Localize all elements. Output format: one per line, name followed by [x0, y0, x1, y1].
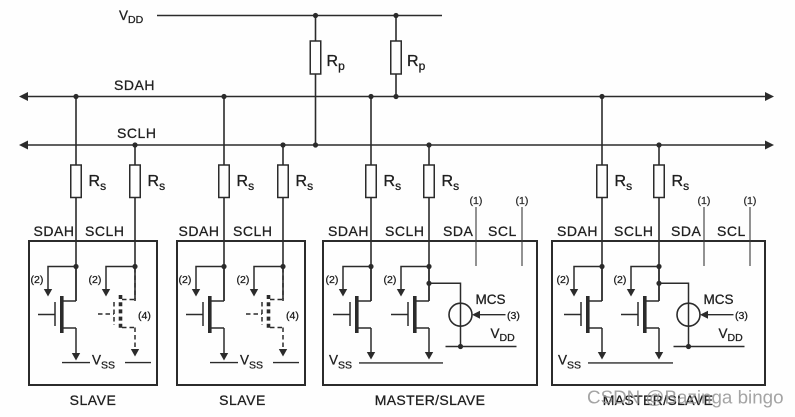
transistor NMOS — [38, 267, 76, 334]
svg-text:SCLH: SCLH — [233, 223, 273, 239]
svg-text:(1): (1) — [470, 195, 483, 207]
caption MASTER/SLAVE — [603, 392, 714, 408]
label Rs — [237, 173, 255, 193]
svg-text:(1): (1) — [744, 195, 757, 207]
label (2) — [179, 274, 192, 286]
supply bar VDD — [446, 346, 517, 348]
current source MCS — [449, 303, 472, 326]
arrow (3) control input — [700, 311, 734, 319]
label (2) — [237, 274, 250, 286]
device box MASTER/SLAVE — [552, 241, 765, 385]
wire to MCS and through to VDD bar — [429, 283, 463, 349]
port label SDA — [443, 223, 474, 239]
label MCS — [476, 292, 506, 307]
junction Rp2 on VDD — [393, 13, 398, 18]
net label VDD — [119, 8, 144, 26]
svg-text:(1): (1) — [516, 195, 529, 207]
junction SCLH / slave2 Rs — [280, 142, 285, 147]
ground rail VSS — [359, 362, 443, 364]
label Rs — [615, 173, 633, 193]
resistor Rs #7 — [597, 97, 608, 302]
svg-text:SLAVE: SLAVE — [70, 392, 117, 408]
transistor NMOS — [621, 267, 659, 334]
junction SDAH / Rp2 — [393, 94, 398, 99]
resistor Rs #5 — [366, 97, 377, 302]
wire gate feedback branch with arrow (2) — [570, 267, 602, 297]
label Rs — [89, 173, 107, 193]
svg-text:SDA: SDA — [671, 223, 702, 239]
label VSS — [329, 353, 352, 372]
svg-text:(2): (2) — [89, 274, 102, 286]
svg-text:(4): (4) — [286, 310, 299, 322]
svg-text:SCLH: SCLH — [614, 223, 654, 239]
junction SCLH / Rp1 — [313, 142, 318, 147]
junction SCLH / master1 Rs — [426, 142, 431, 147]
net label SDAH — [114, 77, 155, 93]
transistor optional dashed (4) — [98, 268, 135, 331]
svg-text:SCL: SCL — [717, 223, 746, 239]
svg-text:SDAH: SDAH — [179, 223, 220, 239]
svg-text:(2): (2) — [326, 274, 339, 286]
label VDD — [491, 326, 516, 344]
label (2) — [89, 274, 102, 286]
wire gate feedback branch with arrow (2) — [192, 267, 224, 297]
svg-text:(2): (2) — [31, 274, 44, 286]
label (1) — [516, 195, 529, 207]
junction SDAH / slave1 Rs — [73, 94, 78, 99]
svg-text:(2): (2) — [614, 274, 627, 286]
node junction at top of transistor — [221, 264, 226, 269]
port label SDAH — [179, 223, 220, 239]
label (2) — [326, 274, 339, 286]
resistor Rp (SCLH pull-up) — [310, 16, 321, 146]
svg-text:SCL: SCL — [488, 223, 517, 239]
label VSS slave2 — [240, 353, 263, 372]
label (3) — [735, 310, 748, 322]
node junction at top of optional transistor — [132, 264, 137, 269]
node junction MCS tap — [656, 281, 661, 286]
svg-text:(1): (1) — [698, 195, 711, 207]
label Rs — [296, 173, 314, 193]
label Rs — [672, 173, 690, 193]
port label SCLH — [85, 223, 125, 239]
wire to MCS and through to VDD bar — [659, 283, 691, 349]
wire source to VSS with arrow — [425, 328, 433, 360]
wire VDD rail — [157, 15, 442, 17]
junction Rp1 on VDD — [313, 13, 318, 18]
svg-text:(2): (2) — [179, 274, 192, 286]
wire SDAH bus — [19, 92, 774, 101]
label VSS slave1 — [92, 353, 115, 372]
svg-text:SCLH: SCLH — [85, 223, 125, 239]
resistor Rs #3 — [219, 97, 230, 302]
device box SLAVE — [177, 241, 305, 385]
svg-text:(4): (4) — [138, 310, 151, 322]
wire gate feedback branch with arrow (2) — [397, 267, 429, 297]
label (4) — [138, 310, 151, 322]
port label SDAH — [328, 223, 369, 239]
device box MASTER/SLAVE — [323, 241, 537, 385]
svg-text:SLAVE: SLAVE — [219, 392, 266, 408]
resistor Rs #4 — [278, 145, 289, 301]
resistor Rs #1 — [71, 97, 82, 302]
port label SCLH — [614, 223, 654, 239]
transistor NMOS — [333, 267, 371, 334]
svg-text:(2): (2) — [384, 274, 397, 286]
caption MASTER/SLAVE — [375, 392, 486, 408]
label (3) — [507, 310, 520, 322]
wire gate feedback branch with arrow (2) — [250, 267, 283, 297]
svg-text:SDAH: SDAH — [114, 77, 155, 93]
label Rp — [327, 53, 346, 73]
wire source to VSS with arrow — [367, 328, 375, 360]
svg-text:SCLH: SCLH — [385, 223, 425, 239]
wire SCLH bus — [19, 141, 774, 150]
wire source to VSS with arrow — [655, 328, 663, 360]
svg-text:SCLH: SCLH — [117, 125, 157, 141]
svg-text:MCS: MCS — [704, 292, 734, 307]
port label SDA — [671, 223, 702, 239]
svg-text:SDA: SDA — [443, 223, 474, 239]
transistor NMOS — [564, 267, 602, 334]
wire source to VSS with arrow — [220, 328, 228, 361]
svg-text:MASTER/SLAVE: MASTER/SLAVE — [375, 392, 486, 408]
svg-text:(2): (2) — [557, 274, 570, 286]
svg-text:(3): (3) — [735, 310, 748, 322]
wire gate feedback branch with arrow (2) — [339, 267, 371, 297]
current source MCS — [677, 303, 700, 326]
label (1) — [698, 195, 711, 207]
svg-text:(3): (3) — [507, 310, 520, 322]
node junction at top of transistor — [656, 264, 661, 269]
node junction MCS tap — [426, 281, 431, 286]
wire source to VSS with arrow — [72, 328, 80, 361]
device box SLAVE — [29, 241, 157, 385]
label VDD — [719, 326, 744, 344]
port label SCL — [488, 223, 517, 239]
port label SDAH — [34, 223, 75, 239]
junction SDAH / master2 Rs — [599, 94, 604, 99]
wire SDA/SCL stub — [475, 207, 477, 266]
label (2) — [557, 274, 570, 286]
ground bar VSS — [62, 362, 90, 364]
svg-text:MCS: MCS — [476, 292, 506, 307]
caption SLAVE — [70, 392, 117, 408]
ground bar VSS — [125, 362, 151, 364]
wire source to VSS with arrow — [598, 328, 606, 360]
port label SDAH — [557, 223, 598, 239]
wire dashed source to VSS with arrow — [131, 328, 139, 357]
svg-text:SDAH: SDAH — [557, 223, 598, 239]
label (1) — [470, 195, 483, 207]
junction SDAH / slave2 Rs — [221, 94, 226, 99]
label (2) — [614, 274, 627, 286]
port label SCLH — [233, 223, 273, 239]
resistor Rs #2 — [130, 145, 141, 301]
watermark — [587, 387, 784, 408]
junction SDAH / master1 Rs — [368, 94, 373, 99]
node junction at top of transistor — [599, 264, 604, 269]
label Rs — [384, 173, 402, 193]
label (2) — [384, 274, 397, 286]
wire SDA/SCL stub — [749, 207, 751, 266]
transistor NMOS — [391, 267, 429, 334]
label (2) — [31, 274, 44, 286]
node junction at top of optional transistor — [280, 264, 285, 269]
arrow (3) control input — [472, 311, 506, 319]
port label SCLH — [385, 223, 425, 239]
label MCS — [704, 292, 734, 307]
wire SDA/SCL stub — [521, 207, 523, 266]
label VSS — [558, 353, 581, 372]
net label SCLH — [117, 125, 157, 141]
svg-text:(2): (2) — [237, 274, 250, 286]
label (1) — [744, 195, 757, 207]
supply bar VDD — [674, 346, 745, 348]
transistor NMOS — [186, 267, 224, 334]
transistor optional dashed (4) — [246, 268, 283, 331]
svg-text:SDAH: SDAH — [34, 223, 75, 239]
port label SCL — [717, 223, 746, 239]
label Rp — [407, 53, 426, 73]
caption SLAVE — [219, 392, 266, 408]
svg-text:CSDN @Bazinga bingo: CSDN @Bazinga bingo — [587, 387, 784, 408]
junction SCLH / slave1 Rs — [132, 142, 137, 147]
node junction at top of transistor — [426, 264, 431, 269]
wire gate feedback branch with arrow (2) — [627, 267, 659, 297]
label (4) — [286, 310, 299, 322]
resistor Rs #6 — [424, 145, 435, 301]
wire dashed source to VSS with arrow — [279, 328, 287, 357]
wire gate feedback branch with arrow (2) — [102, 267, 135, 297]
label Rs — [442, 173, 460, 193]
svg-text:SDAH: SDAH — [328, 223, 369, 239]
ground bar VSS — [210, 362, 238, 364]
node junction at top of transistor — [73, 264, 78, 269]
wire SDA/SCL stub — [703, 207, 705, 266]
wire gate feedback branch with arrow (2) — [44, 267, 76, 297]
node junction at top of transistor — [368, 264, 373, 269]
ground bar VSS — [273, 362, 299, 364]
ground rail VSS — [588, 362, 673, 364]
junction SCLH / master2 Rs — [656, 142, 661, 147]
resistor Rs #8 — [654, 145, 665, 301]
label Rs — [148, 173, 166, 193]
resistor Rp (SDAH pull-up) — [391, 16, 402, 97]
